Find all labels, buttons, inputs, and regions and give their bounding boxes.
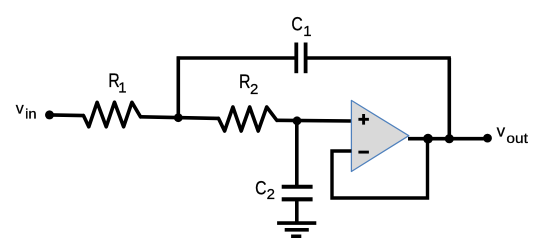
wire C2 to ground — [295, 201, 299, 223]
svg-text:C: C — [255, 177, 266, 199]
svg-text:in: in — [25, 107, 36, 122]
capacitor C2 top plate — [282, 185, 313, 189]
svg-text:out: out — [506, 130, 528, 146]
ground bar 2 — [285, 228, 309, 232]
svg-text:v: v — [16, 101, 24, 118]
wire top rail right of C1 — [308, 56, 451, 60]
wire R2 to op-amp plus input through node B — [277, 119, 352, 123]
node C1 return junction dot — [445, 134, 454, 143]
op-amp U1 triangle — [351, 100, 408, 171]
node B junction dot — [293, 116, 302, 125]
op-amp plus input symbol — [358, 114, 369, 125]
wire vin to R1 — [50, 113, 85, 117]
resistor R2 — [219, 107, 277, 131]
svg-text:v: v — [497, 122, 506, 141]
ground bar 3 — [291, 235, 301, 239]
node vout terminal dot — [483, 134, 492, 143]
wire R1 to R2 through node A — [141, 117, 219, 119]
svg-text:1: 1 — [303, 23, 311, 40]
svg-text:1: 1 — [118, 80, 126, 97]
capacitor C1 right plate — [304, 43, 308, 74]
resistor R1 — [84, 102, 141, 127]
wire minus input feedback loop — [332, 139, 428, 198]
wire node B down to C2 — [295, 121, 299, 185]
wire op-amp output — [408, 137, 488, 141]
wire right vertical from top rail to output — [447, 58, 451, 139]
node A junction dot — [174, 113, 183, 122]
wire top rail left of C1 — [177, 56, 295, 60]
wire node A up to top feedback rail — [177, 56, 181, 117]
capacitor C1 left plate — [294, 43, 298, 74]
svg-text:2: 2 — [250, 81, 258, 98]
ground bar 1 — [277, 221, 316, 225]
op-amp minus input symbol — [358, 151, 369, 154]
svg-text:C: C — [291, 14, 302, 36]
capacitor C2 bottom plate — [282, 197, 313, 201]
node feedback junction dot — [423, 134, 433, 144]
svg-text:2: 2 — [267, 186, 275, 203]
node vin terminal dot — [45, 110, 54, 119]
svg-text:R: R — [239, 71, 251, 93]
